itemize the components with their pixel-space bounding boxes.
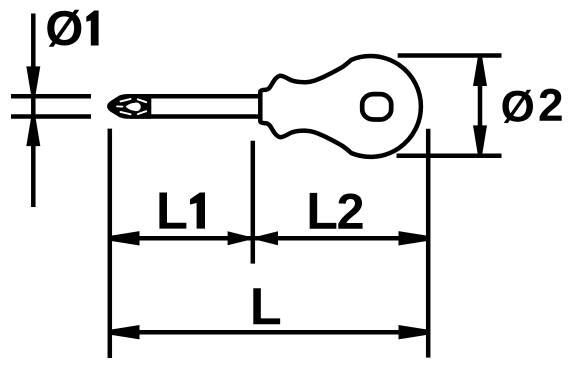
tip groove sliver lower-left (white) [121,112,131,114]
label L [253,288,280,324]
dimension Ø2 extension line bottom [397,153,502,158]
dimension Ø2 dimension line [478,57,483,155]
label Ø2: diameter symbol [502,90,533,123]
tip groove sliver axis (white) [117,105,123,107]
screwdriver shaft top line [130,94,260,99]
dimension Ø1 extension line bottom (shaft bottom edge) [11,114,91,119]
arrowhead L1 right [228,231,256,245]
arrowhead L2 right [399,231,427,245]
arrowhead Ø2 bottom (down) [473,125,487,153]
arrowhead L1 left [112,231,140,245]
label L1: letter L [159,192,186,228]
dimension Ø1 dimension line [31,14,36,208]
label Ø1: digit 1 (drawn path) [86,11,98,46]
screwdriver shaft bottom line [130,114,260,119]
tip cross recess centre (white teardrop) [126,102,141,111]
screwdriver tip (phillips point, solid) [107,94,151,119]
label Ø1: diameter symbol [47,10,81,47]
dimension line L [112,330,426,335]
dimension line L1 [112,236,251,241]
tip groove sliver lower-right (white) [138,111,146,114]
arrowhead Ø1 lower (up) [26,119,40,147]
extension line left (L1 / L start) [108,129,113,358]
arrowhead Ø2 top (up) [473,58,487,86]
extension line right (L2 / L end) [426,129,431,358]
label L2: letter L [310,193,337,229]
tip groove sliver upper-left (white) [121,99,131,101]
label L2: digit 2 [338,193,362,228]
extension line middle (L1/L2 boundary) [251,141,256,264]
tip groove sliver upper-right (white) [138,99,146,102]
dimension line L2 [255,236,426,241]
dimension Ø2 extension line top [398,53,502,58]
arrowhead L right [399,325,427,339]
arrowhead Ø1 upper (down) [26,66,40,94]
label Ø2: digit 2 [540,89,562,121]
handle hole [362,94,391,119]
handle outline [260,56,421,157]
dimension Ø1 extension line top (shaft top edge) [11,94,91,99]
label L1: digit 1 (drawn path) [190,193,205,229]
arrowhead L2 left [250,231,278,245]
arrowhead L left [112,325,140,339]
